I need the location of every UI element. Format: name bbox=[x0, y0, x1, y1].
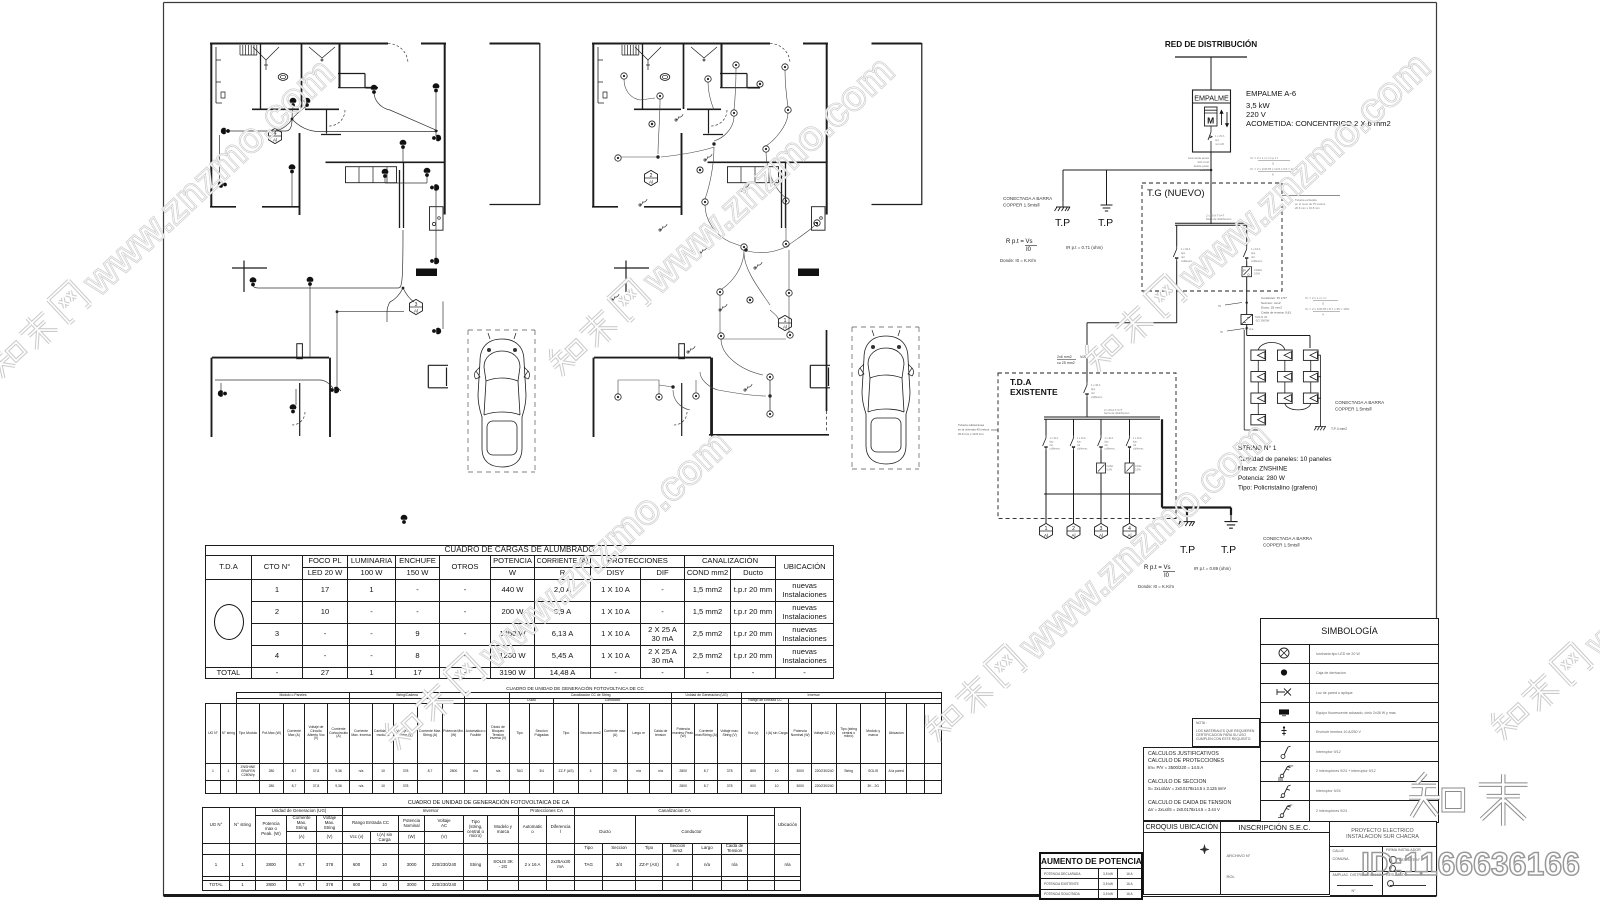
svg-text:Donde: I0 = K.K/m: Donde: I0 = K.K/m bbox=[1138, 584, 1174, 589]
svg-text:0.5%: 0.5% bbox=[1254, 272, 1261, 276]
watermark instance 6 bbox=[1483, 411, 1600, 753]
legend symbol: junction box bbox=[1281, 669, 1287, 675]
watermark instance 5 bbox=[917, 413, 1279, 755]
TDA busbar bbox=[1044, 417, 1160, 419]
svg-text:riel: riel bbox=[1091, 391, 1095, 395]
svg-text:riel: riel bbox=[1251, 255, 1255, 259]
svg-text:STRING N° 1: STRING N° 1 bbox=[1238, 444, 1277, 452]
plan 2 ceiling lights bbox=[621, 73, 627, 79]
wire: distribution drop to empalme bbox=[1210, 57, 1212, 90]
svg-text:1: 1 bbox=[784, 318, 787, 324]
svg-text:V.r = 2 x L x I x f.p x f: V.r = 2 x L x I x f.p x f bbox=[1250, 156, 1278, 160]
plan 1 outlet symbols bbox=[290, 98, 297, 107]
watermark instance 4 bbox=[377, 421, 739, 763]
svg-text:1 x 16 A: 1 x 16 A bbox=[1251, 247, 1261, 251]
svg-text:4: 4 bbox=[1322, 313, 1324, 317]
legend symbol: switch 9/24 bbox=[1280, 785, 1291, 797]
svg-text:I0: I0 bbox=[1026, 247, 1032, 253]
svg-text:cu 25 mm2: cu 25 mm2 bbox=[1057, 361, 1075, 365]
PV wiring arcs and rails bbox=[1258, 343, 1285, 351]
svg-text:I0: I0 bbox=[1164, 573, 1170, 579]
svg-text:RED DE DISTRIBUCIÓN: RED DE DISTRIBUCIÓN bbox=[1165, 38, 1257, 49]
svg-text:Al: Al bbox=[783, 325, 787, 330]
svg-text:V.r = 2 x 0.0178 x 8.7 x 25 =: V.r = 2 x 0.0178 x 8.7 x 25 = 10% bbox=[1305, 307, 1350, 311]
svg-text:T.D.A: T.D.A bbox=[1010, 377, 1031, 387]
legend symbol: switch 9/12 bbox=[1281, 746, 1291, 758]
svg-text:V/A: V/A bbox=[1080, 355, 1086, 359]
svg-text:220 V: 220 V bbox=[1246, 110, 1267, 119]
legend symbol: wall light bbox=[1277, 688, 1291, 695]
TDA earth wire (thick) bbox=[1162, 419, 1231, 515]
wire TG to TDA feed bbox=[1087, 323, 1177, 382]
circuit tag 3/Al bbox=[1095, 523, 1108, 538]
big zhimo logo bbox=[1409, 773, 1527, 825]
breaker Q2 (TG right) bbox=[1246, 225, 1248, 246]
label feeder 2x6mm2 bbox=[1057, 355, 1086, 365]
svg-text:tipo: tipo bbox=[1251, 251, 1256, 255]
labels T.P T.P bbox=[1055, 217, 1113, 229]
svg-text:Caida de tension 0,81: Caida de tension 0,81 bbox=[1261, 310, 1291, 314]
branch circuit 1 bbox=[1045, 419, 1047, 435]
svg-text:Al: Al bbox=[273, 138, 277, 143]
svg-text:2: 2 bbox=[1072, 526, 1075, 532]
plan 2 wire to tag bbox=[744, 253, 779, 323]
svg-text:Seccion: mm2: Seccion: mm2 bbox=[1261, 301, 1281, 305]
plan 1 circuit tag 4/Al bbox=[269, 128, 282, 143]
junction node to earth branch bbox=[1210, 169, 1213, 172]
svg-text:COPPER 1.5mtsll: COPPER 1.5mtsll bbox=[1003, 203, 1040, 208]
svg-text:V.r = 2 x L x I x f: V.r = 2 x L x I x f bbox=[1305, 296, 1327, 300]
legend symbol: double switch bbox=[1278, 802, 1293, 817]
plan 2 lighting wires (dashed) bbox=[618, 68, 814, 411]
svg-text:c/diferenc: c/diferenc bbox=[1105, 448, 1116, 451]
ground electrode T.P (bars) bbox=[1101, 199, 1113, 211]
label conductor block bbox=[1261, 296, 1291, 314]
plan 2 circuit tag 1/Al bbox=[779, 315, 792, 330]
sheet border frame bbox=[164, 3, 1437, 897]
differential protection box bbox=[1242, 267, 1252, 277]
svg-text:Marca: ZNSHINE: Marca: ZNSHINE bbox=[1238, 466, 1287, 473]
svg-text:CONECTADA A BARRA: CONECTADA A BARRA bbox=[1263, 536, 1313, 541]
svg-text:220 Vca: 220 Vca bbox=[1243, 327, 1254, 331]
svg-text:4: 4 bbox=[274, 131, 277, 137]
svg-text:Cantidad de paneles: 10 panele: Cantidad de paneles: 10 paneles bbox=[1238, 456, 1331, 463]
svg-text:2 x 60 A T-V=T: 2 x 60 A T-V=T bbox=[1206, 214, 1225, 218]
ground electrode T.P (hatched) bbox=[1055, 201, 1071, 211]
svg-text:R p.t = Vs: R p.t = Vs bbox=[1006, 239, 1033, 245]
svg-text:c/diferenc: c/diferenc bbox=[1091, 395, 1103, 399]
plan 1 circuit wires bbox=[215, 90, 443, 405]
svg-text:T.P: T.P bbox=[1221, 544, 1236, 556]
svg-text:Ducto: 25 mm2: Ducto: 25 mm2 bbox=[1261, 306, 1282, 310]
circuit tag 2/Al bbox=[1067, 523, 1080, 538]
svg-text:COPPER 1.5mtsll: COPPER 1.5mtsll bbox=[1335, 407, 1372, 412]
plan 2 lamp symbols bbox=[649, 121, 655, 127]
branch circuit 4 bbox=[1129, 419, 1131, 435]
branch circuit 2 bbox=[1073, 419, 1075, 435]
svg-text:Al: Al bbox=[1044, 533, 1048, 538]
svg-text:Al: Al bbox=[1127, 533, 1131, 538]
svg-text:riel c/dif: riel c/dif bbox=[1215, 142, 1224, 146]
plan 1 circuit tag 3/Al bbox=[410, 299, 423, 314]
circuit tag 4/Al bbox=[1123, 523, 1136, 538]
watermark instance 3 bbox=[1077, 43, 1439, 385]
svg-text:T.P: T.P bbox=[1180, 544, 1195, 556]
svg-text:cu: cu bbox=[1218, 304, 1222, 308]
svg-text:2x6 mm2: 2x6 mm2 bbox=[1057, 355, 1072, 359]
svg-text:3: 3 bbox=[1100, 526, 1103, 532]
svg-text:3: 3 bbox=[415, 302, 418, 308]
svg-text:T.G (NUEVO): T.G (NUEVO) bbox=[1147, 188, 1205, 199]
svg-text:IR p.t = 0.89 (ohm): IR p.t = 0.89 (ohm) bbox=[1194, 566, 1231, 571]
svg-text:0.5%: 0.5% bbox=[1107, 469, 1113, 472]
svg-text:R p.t = Vs: R p.t = Vs bbox=[1144, 565, 1171, 571]
svg-text:0.5%: 0.5% bbox=[1135, 469, 1141, 472]
labels T.P T.P bbox=[1180, 544, 1236, 556]
PV string panels bbox=[1251, 350, 1266, 360]
svg-text:S: S bbox=[1272, 162, 1274, 166]
svg-text:Al: Al bbox=[1071, 533, 1075, 538]
meter box U1 EMPALME bbox=[1193, 90, 1231, 152]
svg-text:Al: Al bbox=[1099, 533, 1103, 538]
label string data bbox=[1238, 444, 1331, 492]
floor plan 2 walls (lighting plan) bbox=[592, 43, 922, 437]
formula R p.t (TDA) bbox=[1144, 565, 1171, 579]
svg-text:1 x 25 A: 1 x 25 A bbox=[1215, 134, 1225, 138]
svg-text:Al: Al bbox=[649, 180, 653, 185]
svg-text:Tipo: Policristalino (grafeno): Tipo: Policristalino (grafeno) bbox=[1238, 485, 1317, 492]
watermark instance 1 bbox=[0, 49, 343, 391]
car 1 (plan 1 parking) bbox=[475, 333, 530, 467]
svg-text:2 x 60 A T-V=T: 2 x 60 A T-V=T bbox=[1104, 408, 1123, 412]
plan 2 bottom-middle room walls bbox=[709, 330, 829, 435]
note tuberia right of TG bbox=[1282, 195, 1340, 197]
svg-text:riel: riel bbox=[1181, 255, 1185, 259]
tiny annotation acometida bbox=[1188, 156, 1210, 172]
label cu leader bbox=[1225, 303, 1242, 306]
svg-text:Donde: I0 = K.K/m: Donde: I0 = K.K/m bbox=[1000, 258, 1036, 263]
svg-text:Potencia: 280 W: Potencia: 280 W bbox=[1238, 475, 1286, 482]
legend symbol: fluorescent bbox=[1279, 709, 1289, 715]
svg-text:EMPALME: EMPALME bbox=[1194, 94, 1229, 103]
svg-text:CAIDA: CAIDA bbox=[1254, 268, 1262, 272]
svg-text:2: 2 bbox=[650, 173, 653, 179]
svg-text:m: m bbox=[1290, 763, 1294, 768]
svg-text:barra de distribucion: barra de distribucion bbox=[1206, 217, 1232, 221]
legend symbol: socket bbox=[1281, 726, 1286, 735]
svg-text:EMPALME A-6: EMPALME A-6 bbox=[1246, 89, 1296, 98]
svg-text:F: F bbox=[1290, 802, 1293, 807]
plan 2 middle room wires bbox=[696, 372, 770, 411]
tiny formulas right of wire bbox=[1250, 156, 1298, 177]
svg-text:6: 6 bbox=[1272, 173, 1274, 177]
svg-text:c/diferenc: c/diferenc bbox=[1077, 448, 1088, 451]
svg-text:0: 0 bbox=[1248, 273, 1250, 277]
wire: earth branch left bbox=[1063, 170, 1211, 201]
svg-text:EXISTENTE: EXISTENTE bbox=[1010, 387, 1058, 397]
svg-text:tipo: tipo bbox=[1091, 387, 1096, 391]
svg-text:1: 1 bbox=[1045, 526, 1048, 532]
wire: empalme to TG busbar bbox=[1210, 152, 1212, 224]
svg-text:T.P: T.P bbox=[1098, 217, 1113, 229]
svg-text:20.6 mm x 10.8 mm: 20.6 mm x 10.8 mm bbox=[1295, 206, 1320, 210]
wire TG to inverter bbox=[1246, 277, 1248, 315]
svg-text:c/diferenc: c/diferenc bbox=[1050, 448, 1061, 451]
legend symbol: switch combo bbox=[1278, 763, 1294, 780]
label conectada a barra (TDA) bbox=[1263, 536, 1313, 548]
svg-text:CONECTADA A BARRA: CONECTADA A BARRA bbox=[1003, 196, 1053, 201]
car 2 (plan 2 parking) bbox=[859, 330, 914, 464]
breaker Q1 (TG left) bbox=[1176, 225, 1178, 246]
svg-text:Conductor: Pt 2,5?: Conductor: Pt 2,5? bbox=[1261, 296, 1287, 300]
PV frame ground bbox=[1314, 427, 1326, 431]
circuit tag 1/Al bbox=[1040, 523, 1053, 538]
TG busbar bbox=[1175, 223, 1247, 225]
svg-text:-2G 3000W: -2G 3000W bbox=[1255, 319, 1270, 323]
note tuberia subterranea bbox=[958, 423, 990, 436]
floor plan 1 walls (power plan) bbox=[210, 43, 540, 437]
formula R p.t bbox=[1006, 239, 1033, 253]
svg-text:tipo: tipo bbox=[1181, 251, 1186, 255]
svg-text:en la vivienda 40 metros: en la vivienda 40 metros bbox=[958, 428, 990, 432]
ground electrode (bars) bbox=[1224, 515, 1237, 528]
svg-text:COPPER 1.5mtsll: COPPER 1.5mtsll bbox=[1263, 543, 1300, 548]
svg-text:IR p.t = 0.71 (ohm): IR p.t = 0.71 (ohm) bbox=[1066, 245, 1103, 250]
svg-text:c/diferenc: c/diferenc bbox=[1181, 259, 1193, 263]
svg-text:3,5 kW: 3,5 kW bbox=[1246, 101, 1270, 110]
ground electrode (hatched) bbox=[1178, 515, 1195, 526]
svg-text:c/diferenc: c/diferenc bbox=[1133, 448, 1144, 451]
plan 2 circuit tag 2/Al bbox=[645, 170, 658, 185]
svg-text:cu: cu bbox=[1220, 330, 1224, 334]
plan 2 switch glyphs bbox=[611, 113, 762, 391]
svg-text:T.P: T.P bbox=[1055, 217, 1070, 229]
panel board T.G (NUEVO) dashed box bbox=[1142, 183, 1282, 291]
panel board T.D.A EXISTENTE dashed box bbox=[998, 373, 1176, 519]
label conectada a barra bbox=[1003, 196, 1053, 208]
branch circuit 3 bbox=[1100, 419, 1102, 435]
label conectada a barra (PV) bbox=[1335, 400, 1385, 412]
plan 2 junction boxes bbox=[712, 142, 715, 145]
svg-text:CONECTADA A BARRA: CONECTADA A BARRA bbox=[1335, 400, 1385, 405]
svg-text:tipo: tipo bbox=[1215, 138, 1220, 142]
svg-text:c/diferenc: c/diferenc bbox=[1251, 259, 1263, 263]
TDA collector wire bbox=[1044, 493, 1161, 495]
svg-text:M: M bbox=[1207, 116, 1214, 126]
svg-text:T.P 4 mm2: T.P 4 mm2 bbox=[1331, 427, 1347, 431]
svg-text:Tuberia subterranea: Tuberia subterranea bbox=[958, 423, 984, 427]
svg-text:ACOMETIDA: CONCENTRICO 2 X 6 m: ACOMETIDA: CONCENTRICO 2 X 6 mm2 bbox=[1246, 119, 1391, 128]
svg-text:20.6 mm x 10.8 mm: 20.6 mm x 10.8 mm bbox=[958, 432, 984, 436]
svg-text:Al: Al bbox=[414, 309, 418, 314]
TDA main breaker bbox=[1084, 382, 1089, 397]
svg-text:1 x 32 A: 1 x 32 A bbox=[1181, 247, 1191, 251]
watermark instance 2 bbox=[541, 47, 903, 389]
svg-text:1 x 40 A: 1 x 40 A bbox=[1091, 383, 1101, 387]
legend symbol: lamp bbox=[1279, 648, 1289, 658]
inverter U2 bbox=[1241, 315, 1253, 325]
wire inverter to PV string bbox=[1247, 325, 1310, 349]
svg-text:S: S bbox=[1322, 302, 1324, 306]
svg-text:V.r = 2 x 0.0178 x 14.5 x 0.6: V.r = 2 x 0.0178 x 14.5 x 0.6 = 0.4% bbox=[1250, 167, 1298, 171]
svg-text:4: 4 bbox=[1128, 526, 1131, 532]
label: empalme data bbox=[1246, 89, 1391, 128]
